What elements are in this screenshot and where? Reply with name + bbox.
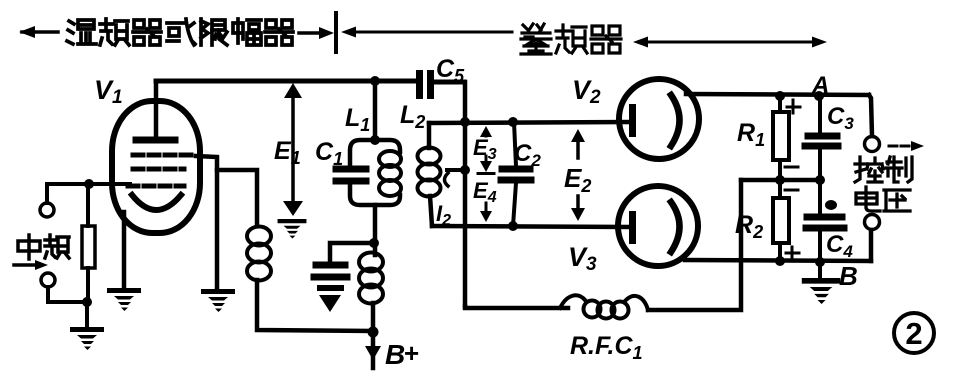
capacitor C3 plates bbox=[805, 136, 838, 146]
node top wire crossing bbox=[460, 117, 470, 127]
wire terminal bottom to ground node bbox=[48, 287, 87, 302]
tube V1 cathode lead bbox=[122, 212, 127, 287]
inductor choke to B+ bbox=[359, 253, 383, 304]
tube V1 envelope bbox=[112, 101, 200, 233]
制 bbox=[886, 157, 912, 182]
svg-text:+: + bbox=[404, 338, 419, 368]
wire secondary bottom bbox=[432, 226, 629, 227]
tube V2 envelope bbox=[619, 79, 699, 159]
tube V3 cathode arc bbox=[671, 202, 680, 252]
wire bypass tap bbox=[330, 243, 374, 262]
tube V1 plate bbox=[136, 137, 175, 144]
器 bbox=[133, 20, 161, 45]
resistor input leads bbox=[86, 184, 90, 302]
wire R1 top lead bbox=[778, 96, 782, 112]
node rail L1 bbox=[370, 76, 380, 86]
混 bbox=[67, 20, 96, 44]
ground input bbox=[70, 327, 104, 350]
wire bottom rail left bbox=[465, 306, 568, 308]
label 电压 drawn glyphs bbox=[856, 187, 910, 211]
svg-text:B: B bbox=[839, 261, 858, 291]
wire A row bbox=[741, 178, 821, 183]
minus R1 bbox=[785, 166, 798, 169]
wire secondary top bbox=[429, 122, 629, 123]
label 控制 drawn glyphs bbox=[855, 157, 912, 182]
arrow out of divider bbox=[341, 27, 512, 38]
resistor R2 bbox=[773, 198, 789, 243]
tube V2 cathode arc bbox=[671, 95, 680, 146]
wire center tap bbox=[447, 168, 465, 172]
tube V1 cathode bbox=[132, 195, 181, 210]
wire terminal top to grid node bbox=[47, 184, 130, 203]
node C3 bottom bbox=[815, 175, 825, 185]
input terminal top bbox=[40, 203, 54, 217]
wire choke to B+ node bbox=[371, 303, 376, 332]
鉴 bbox=[521, 24, 551, 54]
plus R2 bbox=[786, 247, 799, 260]
right section double arrow bbox=[633, 37, 827, 48]
tube V1 plate lead bbox=[154, 81, 159, 138]
node C2 top bbox=[508, 117, 518, 127]
ground screen bbox=[201, 289, 235, 312]
node tank top bbox=[370, 135, 380, 145]
divider tick bbox=[334, 13, 338, 52]
wire C5 vertical to bottom rail bbox=[463, 82, 468, 306]
resistor input bbox=[82, 226, 95, 268]
inductor L1 loops bbox=[379, 151, 401, 196]
svg-text:B: B bbox=[385, 339, 405, 370]
E1 measure arrow bbox=[283, 83, 303, 216]
wire C5 to down line bbox=[434, 80, 464, 85]
capacitor C1 plates bbox=[336, 169, 366, 181]
input terminal bottom bbox=[41, 273, 55, 287]
tube V3 plate bar bbox=[629, 211, 636, 244]
器 bbox=[265, 20, 293, 45]
label 混频器或限幅器 (mixer or limiter) drawn glyphs bbox=[67, 19, 293, 45]
ground cathode V1 bbox=[107, 288, 141, 311]
wire C4 top lead bbox=[818, 180, 822, 213]
wire screen grid tap bbox=[196, 156, 217, 288]
svg-text:2: 2 bbox=[905, 316, 922, 351]
频 bbox=[556, 25, 587, 53]
wire B to output terminal bbox=[869, 230, 874, 261]
控 bbox=[855, 157, 883, 182]
input arrow bbox=[14, 260, 48, 270]
wire C4 bottom lead bbox=[818, 232, 822, 262]
频 bbox=[100, 19, 129, 45]
output terminal top bbox=[865, 137, 880, 152]
wire A to output terminal bbox=[869, 95, 872, 136]
node input junction bbox=[84, 179, 94, 189]
tube V3 envelope bbox=[618, 186, 698, 266]
幅 bbox=[233, 19, 261, 45]
tube V1 grid 3 bbox=[128, 184, 184, 189]
wire R2 bottom lead bbox=[778, 243, 782, 261]
label 中频 (IF input) drawn glyphs bbox=[18, 235, 69, 259]
output terminal bottom bbox=[865, 215, 880, 230]
限 bbox=[201, 19, 227, 45]
node C3 top / A bbox=[814, 91, 824, 101]
node input bottom junction bbox=[82, 297, 92, 307]
E4 measure arrow bbox=[480, 203, 492, 222]
section arrow left end bbox=[19, 26, 58, 38]
capacitor bypass plates bbox=[314, 265, 347, 277]
capacitor C5 bbox=[416, 70, 434, 99]
wire tank bottom bbox=[373, 205, 378, 255]
inductor screen coil bbox=[247, 227, 271, 281]
ground bypass bbox=[317, 285, 344, 312]
wire B ground lead bbox=[818, 262, 822, 277]
arrow into divider bbox=[299, 27, 334, 39]
wire C2 bottom bbox=[513, 183, 516, 226]
label 鉴频器 (discriminator) drawn glyphs bbox=[521, 24, 621, 54]
C4 polarity blob bbox=[825, 200, 837, 210]
ground B bbox=[802, 278, 840, 304]
wire bottom rail right bbox=[648, 180, 741, 310]
tank frame bbox=[350, 140, 400, 205]
plus R1 bbox=[787, 100, 800, 113]
node bypass junction bbox=[369, 238, 379, 248]
wire to ground bbox=[85, 302, 89, 326]
inductor L2 loops bbox=[418, 148, 441, 197]
output arrow bbox=[889, 141, 924, 151]
figure number 2 bbox=[894, 313, 934, 353]
node center tap bbox=[460, 165, 470, 175]
node C4 bottom / B bbox=[815, 257, 825, 267]
node mid divider bbox=[775, 175, 785, 185]
resistor R1 bbox=[773, 112, 789, 160]
wire C3 bottom lead bbox=[818, 149, 822, 180]
ground E1 bbox=[278, 219, 307, 239]
wire R2 top lead bbox=[778, 180, 782, 198]
minus R2 bbox=[785, 189, 798, 192]
tube V1 grid 2 bbox=[133, 167, 184, 172]
node R2 bottom bbox=[775, 256, 785, 266]
中 bbox=[18, 235, 40, 259]
器 bbox=[591, 26, 621, 53]
wire rail to tank bbox=[373, 83, 378, 140]
wire C3 top lead bbox=[818, 96, 822, 133]
capacitor C4 plates bbox=[806, 217, 844, 228]
wire screen coil to B+ rail bbox=[257, 280, 373, 331]
L2 bottom lead bbox=[430, 196, 432, 226]
inductor RFC1 bbox=[560, 295, 648, 318]
capacitor C2 plates bbox=[501, 169, 531, 180]
node B+ bbox=[368, 327, 379, 338]
svg-text:R.F.C1: R.F.C1 bbox=[570, 332, 643, 363]
E3 measure arrow bbox=[478, 126, 494, 174]
频 bbox=[45, 235, 69, 258]
B+ arrow bbox=[365, 335, 381, 368]
wire V2 out to A row bbox=[686, 94, 869, 95]
wire screen to coil bbox=[217, 170, 257, 226]
wire R1 bottom lead bbox=[778, 160, 782, 180]
或 bbox=[167, 19, 195, 45]
L2 top lead bbox=[427, 123, 432, 148]
L2 center tap mark bbox=[445, 173, 449, 186]
tube V1 grid 1 bbox=[133, 153, 196, 158]
node C2 bottom bbox=[508, 221, 518, 231]
node R1 top bbox=[775, 91, 785, 101]
wire V3 out to B row bbox=[685, 260, 871, 261]
tube V2 plate bar bbox=[629, 104, 636, 137]
压 bbox=[884, 190, 910, 211]
wire plate rail bbox=[156, 79, 416, 84]
电 bbox=[856, 187, 880, 211]
wire C2 top bbox=[514, 122, 516, 166]
